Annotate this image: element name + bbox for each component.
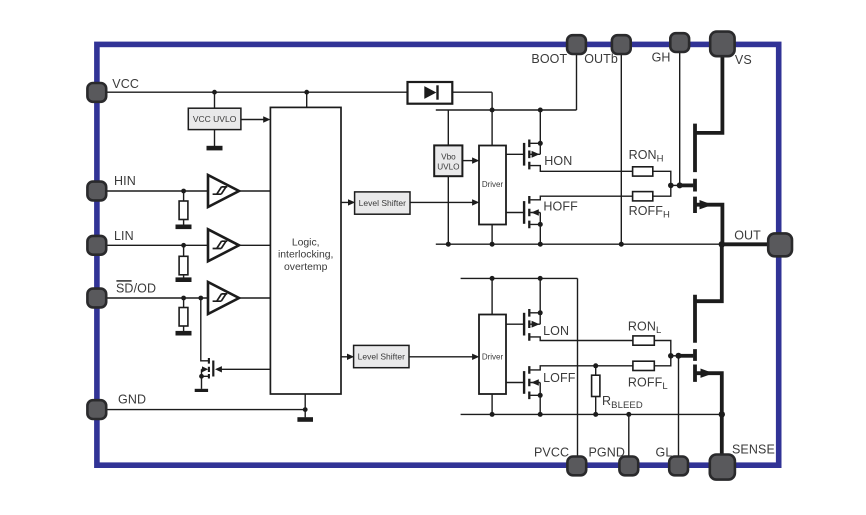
svg-text:interlocking,: interlocking,	[278, 250, 333, 261]
svg-text:Vbo: Vbo	[441, 152, 456, 161]
svg-text:GH: GH	[652, 51, 671, 65]
svg-text:HIN: HIN	[114, 174, 136, 188]
svg-text:HOFF: HOFF	[543, 200, 578, 214]
svg-text:PGND: PGND	[589, 445, 626, 459]
svg-text:BOOT: BOOT	[531, 52, 567, 66]
svg-text:overtemp: overtemp	[284, 262, 328, 273]
svg-text:PVCC: PVCC	[534, 445, 569, 459]
svg-text:Level Shifter: Level Shifter	[359, 198, 406, 208]
svg-text:LON: LON	[543, 324, 569, 338]
svg-text:SD/OD: SD/OD	[116, 282, 156, 296]
svg-text:HON: HON	[544, 154, 572, 168]
svg-text:VS: VS	[735, 53, 752, 67]
svg-text:OUTb: OUTb	[584, 52, 618, 66]
svg-text:Logic,: Logic,	[292, 237, 320, 248]
svg-text:VCC UVLO: VCC UVLO	[193, 114, 237, 124]
svg-text:GND: GND	[118, 393, 146, 407]
svg-text:Level Shifter: Level Shifter	[358, 352, 405, 362]
svg-text:SENSE: SENSE	[732, 442, 775, 456]
svg-text:Driver: Driver	[482, 352, 504, 361]
svg-text:VCC: VCC	[112, 77, 139, 91]
svg-text:OUT: OUT	[734, 229, 761, 243]
svg-text:Driver: Driver	[482, 180, 504, 189]
svg-text:GL: GL	[656, 445, 673, 459]
svg-text:LOFF: LOFF	[543, 371, 576, 385]
svg-text:LIN: LIN	[114, 229, 134, 243]
svg-text:UVLO: UVLO	[437, 162, 459, 171]
